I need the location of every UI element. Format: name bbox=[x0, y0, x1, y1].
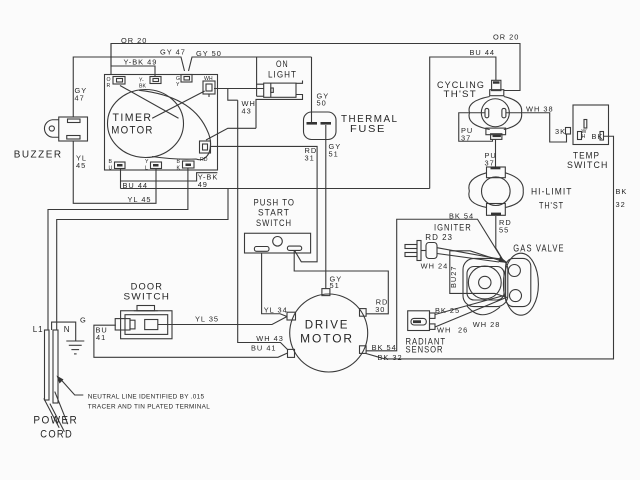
svg-text:YL 35: YL 35 bbox=[195, 315, 219, 324]
svg-text:LIGHT: LIGHT bbox=[268, 69, 297, 80]
svg-text:WH 28: WH 28 bbox=[473, 320, 501, 329]
svg-text:51: 51 bbox=[329, 150, 339, 159]
drive motor bbox=[287, 289, 368, 372]
svg-text:BU27: BU27 bbox=[449, 266, 458, 289]
svg-text:YL 34: YL 34 bbox=[264, 306, 288, 315]
svg-text:BUZZER: BUZZER bbox=[14, 149, 63, 160]
svg-text:WH 24: WH 24 bbox=[421, 262, 449, 271]
svg-text:Y: Y bbox=[145, 159, 149, 165]
wire GY-47 / GY-50 horizontal with tap to timer G-Y terminal bbox=[73, 57, 311, 117]
timer motor circle bbox=[108, 90, 184, 158]
svg-text:51: 51 bbox=[330, 281, 340, 290]
cycling thermostat bbox=[469, 80, 522, 139]
wire BU-27 bracket at gas valve bbox=[450, 251, 507, 298]
wire neutral from cord bbox=[57, 189, 228, 331]
timer terminal WH bbox=[203, 81, 215, 97]
svg-text:L: L bbox=[145, 166, 148, 172]
svg-text:WH 38: WH 38 bbox=[526, 105, 554, 114]
svg-text:GY 47: GY 47 bbox=[160, 48, 186, 57]
svg-text:32: 32 bbox=[616, 200, 626, 209]
svg-text:MOTOR: MOTOR bbox=[300, 332, 354, 346]
svg-text:START: START bbox=[258, 207, 290, 218]
svg-text:ON: ON bbox=[276, 58, 289, 69]
gas valve bbox=[463, 253, 538, 315]
timer terminal BU bbox=[115, 162, 126, 169]
wire Y-BK-49 to timer bbox=[111, 44, 155, 77]
wire BU-44 loop by timer bbox=[121, 173, 218, 181]
wire BK-54 motor to igniter circuit bbox=[366, 219, 503, 351]
svg-text:49: 49 bbox=[198, 180, 208, 189]
wire BU-44 from rail up to cycling thermostat bbox=[430, 57, 496, 189]
timer terminal R bbox=[113, 77, 125, 85]
wire BK-25 radiant sensor to gas valve bbox=[435, 296, 504, 315]
timer box bbox=[105, 75, 218, 171]
svg-text:MOTOR: MOTOR bbox=[111, 125, 154, 137]
svg-text:BU 41: BU 41 bbox=[251, 344, 277, 353]
wire igniter leads to gas valve bbox=[437, 248, 502, 262]
wire GY-50 drop into thermal fuse bbox=[311, 57, 313, 122]
svg-text:WH: WH bbox=[437, 326, 451, 335]
wire push-to-start left terminal to motor YL-34 bbox=[262, 253, 287, 317]
svg-text:SWITCH: SWITCH bbox=[124, 291, 171, 302]
wire timer WH terminal to ON light bbox=[214, 88, 264, 90]
svg-text:POWER: POWER bbox=[33, 415, 78, 427]
timer internal diagonals bbox=[120, 86, 205, 119]
svg-text:BK 32: BK 32 bbox=[378, 353, 403, 362]
wire YL-45 buzzer to timer YL terminal bbox=[73, 141, 156, 203]
wire RD-55 hi-limit to gas valve bbox=[496, 216, 504, 261]
svg-text:NEUTRAL LINE IDENTIFIED BY .01: NEUTRAL LINE IDENTIFIED BY .015 bbox=[88, 394, 205, 401]
svg-text:BK: BK bbox=[592, 132, 604, 141]
wire YL-35 door switch to motor bbox=[158, 317, 287, 325]
svg-text:TH'ST: TH'ST bbox=[539, 200, 564, 211]
svg-text:TIMER: TIMER bbox=[113, 112, 153, 124]
svg-text:B: B bbox=[177, 159, 181, 165]
wire GY-51 thermal fuse to drive motor bbox=[325, 125, 327, 289]
svg-text:TRACER AND TIN PLATED TERMINAL: TRACER AND TIN PLATED TERMINAL bbox=[88, 404, 210, 411]
on light lamp bbox=[256, 57, 303, 128]
wire WH-38 cycling thermostat to temp switch bbox=[506, 113, 567, 142]
svg-text:G: G bbox=[80, 316, 87, 325]
wire WH-26/WH-28 radiant sensor to gas valve bbox=[435, 298, 505, 327]
timer terminal G-Y bbox=[181, 75, 192, 83]
svg-text:FUSE: FUSE bbox=[350, 124, 386, 135]
svg-text:3K: 3K bbox=[555, 127, 566, 136]
svg-text:HI-LIMIT: HI-LIMIT bbox=[531, 186, 573, 197]
wire WH-43 long drop to drive motor bbox=[238, 100, 288, 349]
svg-text:37: 37 bbox=[461, 134, 471, 143]
wire RD-30 push-to-start to motor bbox=[294, 251, 388, 314]
door switch bbox=[115, 306, 172, 339]
svg-text:OR 20: OR 20 bbox=[121, 36, 147, 45]
svg-text:45: 45 bbox=[76, 161, 86, 170]
svg-text:N: N bbox=[64, 325, 71, 334]
svg-text:Y-BK 49: Y-BK 49 bbox=[124, 58, 158, 67]
radiant sensor bbox=[408, 311, 435, 331]
svg-text:Y: Y bbox=[176, 82, 180, 88]
svg-text:CORD: CORD bbox=[40, 429, 73, 441]
svg-text:37: 37 bbox=[485, 159, 495, 168]
svg-text:31: 31 bbox=[305, 154, 315, 163]
buzzer bbox=[44, 117, 87, 141]
svg-text:55: 55 bbox=[499, 226, 509, 235]
svg-text:47: 47 bbox=[75, 94, 85, 103]
power cord jacket bbox=[44, 392, 68, 432]
wire PU-37 cycling to hi-limit bbox=[495, 139, 497, 167]
power cord N prong bbox=[53, 330, 58, 403]
wire BK-32 temp switch right side down and across bottom bbox=[366, 136, 614, 359]
timer terminal YL bbox=[151, 162, 162, 169]
svg-text:GY 50: GY 50 bbox=[196, 49, 222, 58]
timer cam leaf bbox=[139, 90, 211, 159]
svg-text:BK 54: BK 54 bbox=[372, 343, 397, 352]
wire PU-37 cycling thermostat left contact loop bbox=[459, 113, 493, 142]
wire neutral rail y=188.5 bbox=[121, 188, 430, 190]
timer terminal BK bbox=[183, 161, 195, 168]
svg-text:SENSOR: SENSOR bbox=[406, 344, 444, 355]
svg-text:SWITCH: SWITCH bbox=[567, 159, 609, 170]
timer terminal RD bbox=[200, 141, 211, 153]
svg-text:IGNITER: IGNITER bbox=[434, 222, 472, 233]
svg-text:WH 43: WH 43 bbox=[256, 334, 284, 343]
power cord L1 prong bbox=[45, 330, 50, 400]
wire timer BU terminal drop bbox=[120, 169, 122, 189]
svg-text:DRIVE: DRIVE bbox=[305, 318, 350, 332]
hi-limit thermostat bbox=[469, 167, 523, 216]
wire RD-31 timer to push-to-start switch bbox=[210, 146, 317, 261]
thermal fuse bbox=[304, 112, 337, 140]
svg-text:41: 41 bbox=[96, 333, 106, 342]
wire L1 feed to timer BK terminal bbox=[48, 168, 188, 330]
timer terminal Y-BK bbox=[150, 77, 161, 84]
temp switch box bbox=[566, 105, 609, 145]
svg-text:RD: RD bbox=[200, 157, 208, 163]
igniter bbox=[405, 241, 437, 261]
junction arrowhead at gas valve upper lug bbox=[499, 257, 509, 264]
svg-text:BK: BK bbox=[616, 187, 628, 196]
svg-text:RD 23: RD 23 bbox=[425, 233, 453, 242]
svg-text:BU 44: BU 44 bbox=[123, 181, 149, 190]
svg-text:L1: L1 bbox=[33, 325, 44, 334]
svg-text:TH'ST: TH'ST bbox=[444, 88, 478, 99]
svg-text:OR 20: OR 20 bbox=[493, 33, 519, 42]
svg-text:GAS VALVE: GAS VALVE bbox=[513, 244, 564, 255]
wire neutral-ground jumper bbox=[52, 322, 76, 341]
svg-text:WH: WH bbox=[204, 76, 213, 82]
svg-text:30: 30 bbox=[375, 305, 385, 314]
svg-text:26: 26 bbox=[458, 326, 468, 335]
svg-text:B: B bbox=[109, 159, 113, 165]
svg-text:43: 43 bbox=[242, 107, 252, 116]
svg-text:BK: BK bbox=[139, 84, 146, 90]
svg-text:U: U bbox=[109, 166, 113, 172]
svg-text:BK 54: BK 54 bbox=[449, 212, 474, 221]
note leader arrow bbox=[57, 376, 84, 396]
svg-text:H: H bbox=[582, 134, 586, 140]
svg-text:K: K bbox=[177, 166, 181, 172]
wire BU-41 door switch to motor bbox=[94, 325, 288, 357]
ground symbol bbox=[66, 341, 84, 354]
svg-text:BU 44: BU 44 bbox=[470, 48, 496, 57]
svg-text:SWITCH: SWITCH bbox=[256, 217, 292, 228]
wire OR-20 top rail bbox=[111, 44, 520, 91]
svg-text:BK 25: BK 25 bbox=[435, 306, 460, 315]
svg-text:YL 45: YL 45 bbox=[128, 195, 152, 204]
push to start switch bbox=[245, 233, 311, 253]
svg-text:50: 50 bbox=[317, 99, 327, 108]
wire WH to RD internal link bbox=[206, 89, 256, 141]
svg-text:R: R bbox=[107, 83, 111, 89]
